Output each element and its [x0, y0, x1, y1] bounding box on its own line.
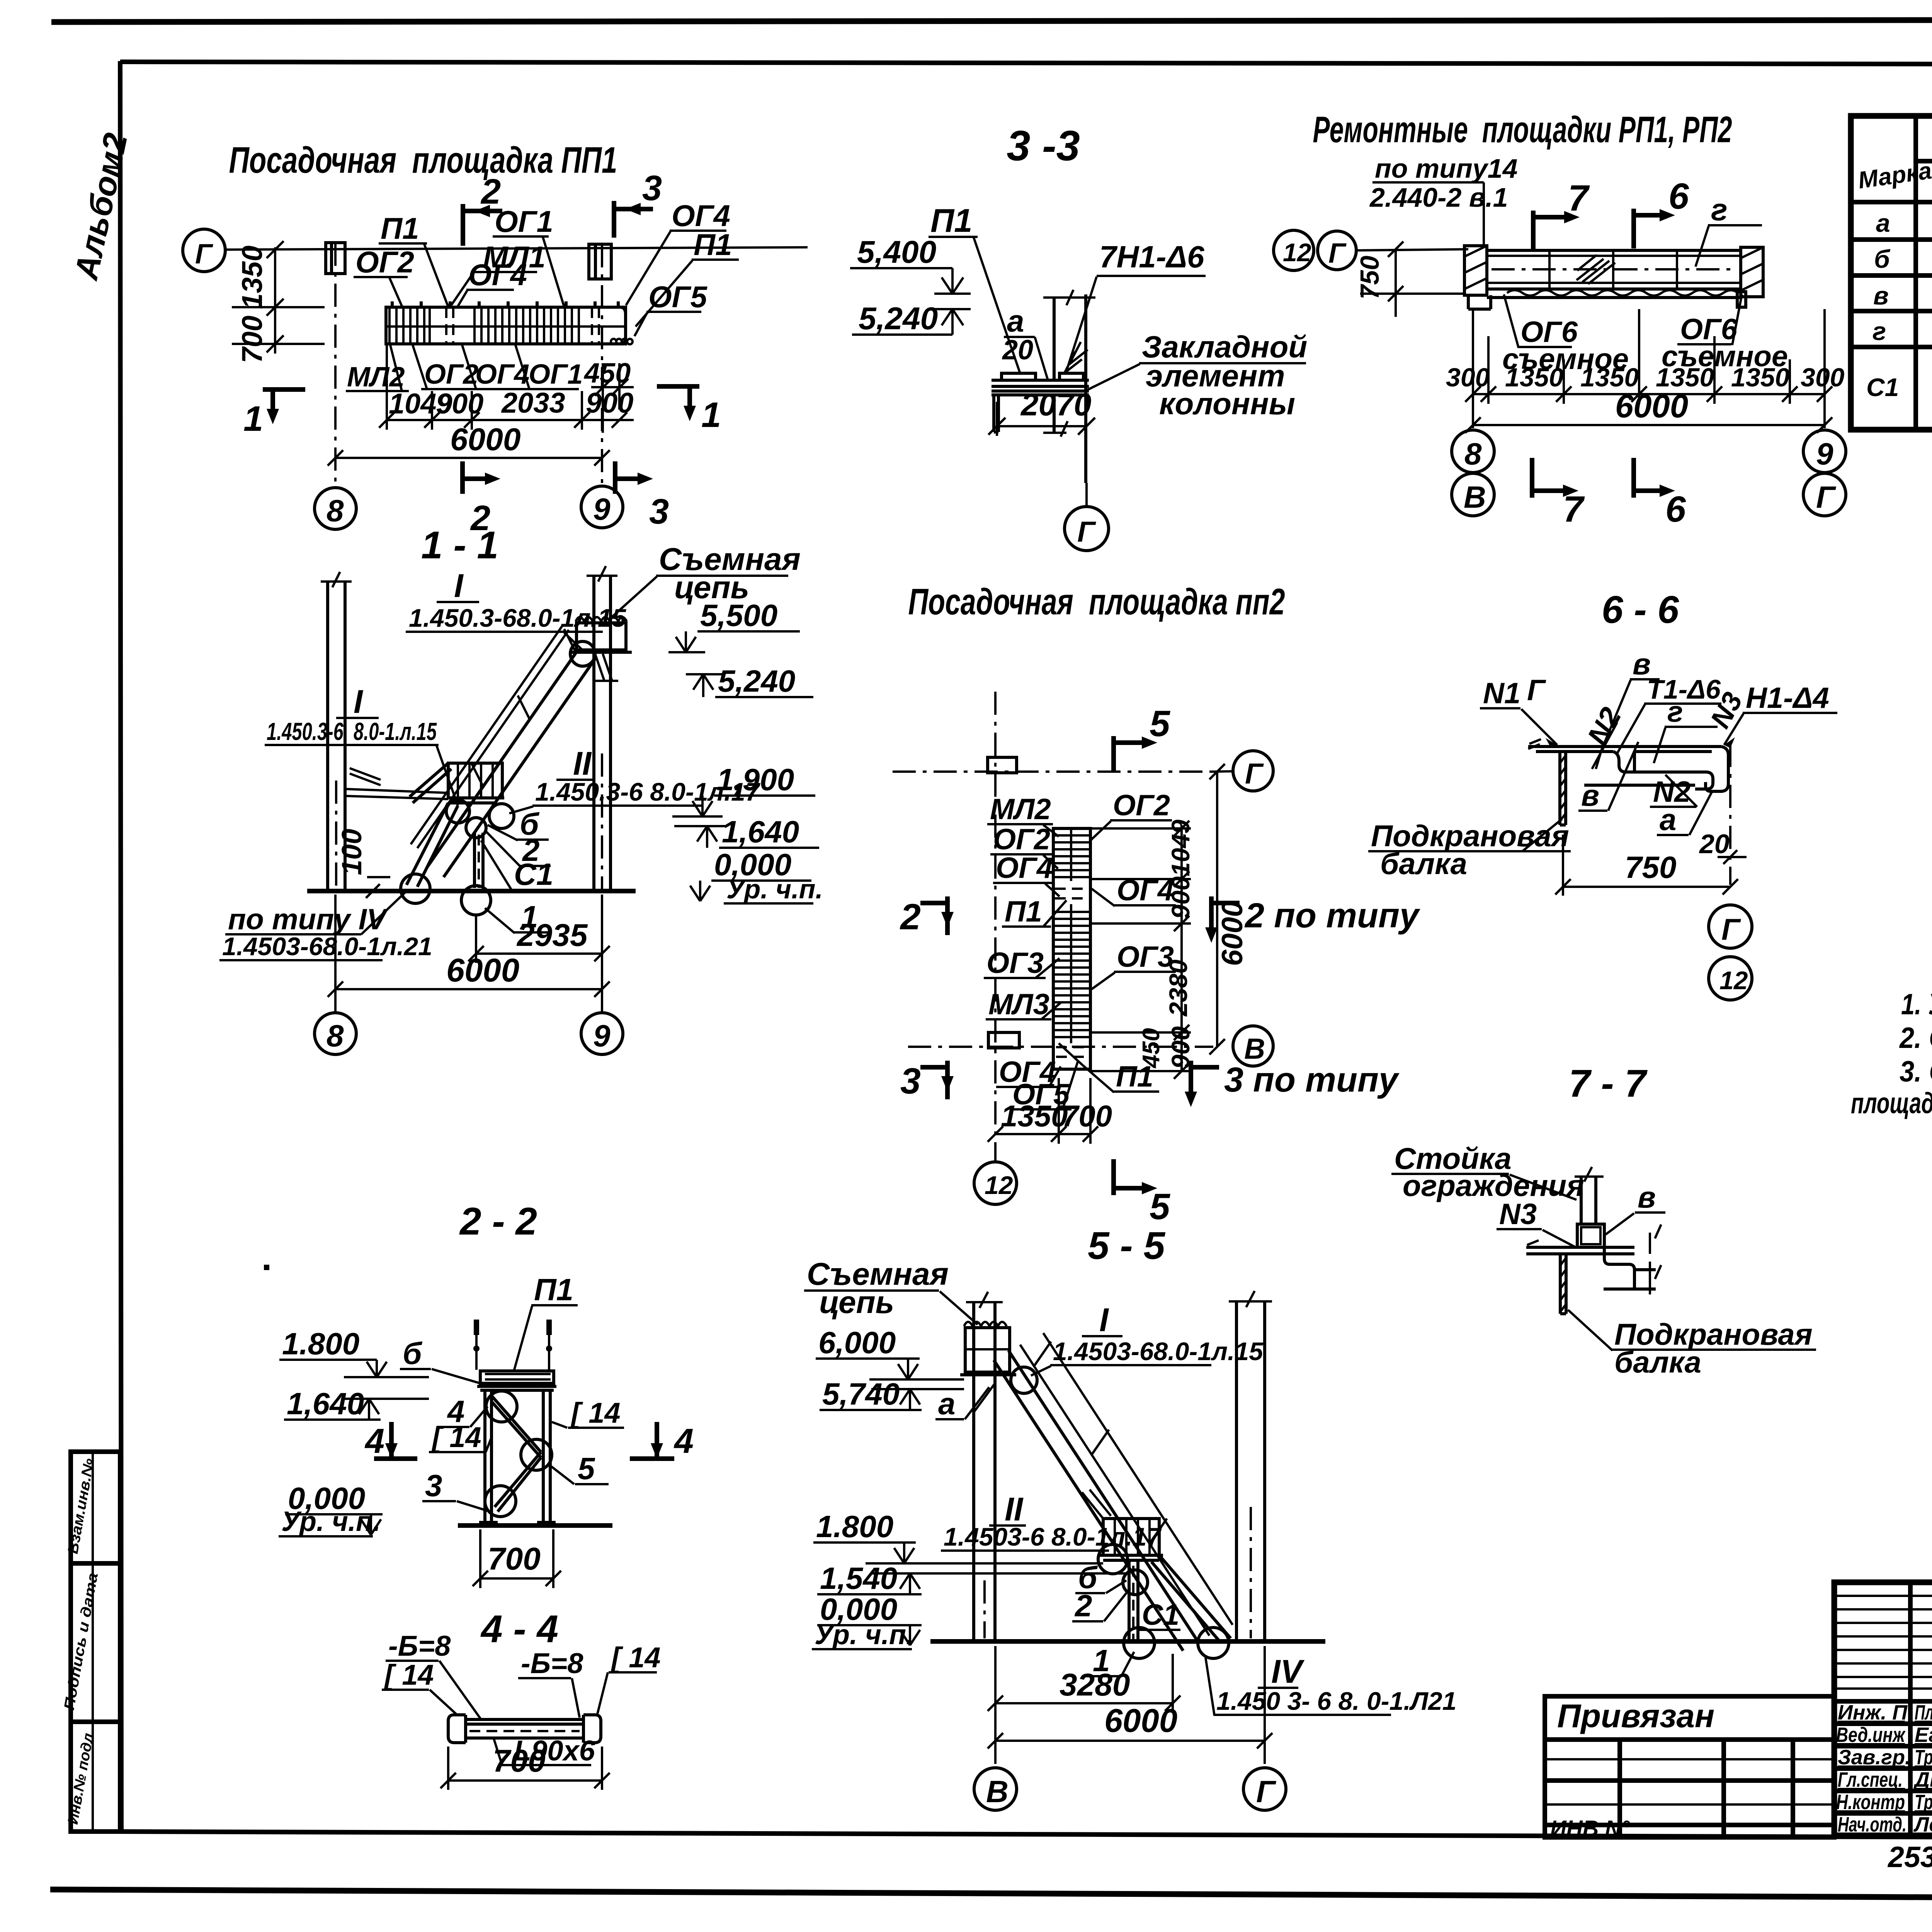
axis 8 vertical dash line	[334, 243, 337, 488]
svg-text:2380: 2380	[1164, 959, 1192, 1017]
stair plan rect	[1053, 828, 1090, 1069]
label 2 5-5	[1072, 1588, 1130, 1623]
label ТН1-Д6	[1065, 240, 1206, 373]
svg-text:6: 6	[1668, 176, 1689, 217]
lower flight to ground	[406, 803, 448, 885]
axis circle 12 bottom	[974, 1162, 1017, 1204]
label Подкрановая балка 6-6	[1368, 819, 1571, 881]
svg-text:ОГ2: ОГ2	[993, 823, 1050, 856]
label 1	[485, 900, 549, 934]
row line a	[1851, 237, 1932, 242]
svg-text:Посадочная площадка пп2: Посадочная площадка пп2	[908, 581, 1285, 622]
label П1	[929, 202, 1020, 373]
svg-text:П1: П1	[381, 211, 419, 245]
stair stringers 5-5	[1009, 1350, 1198, 1641]
axis circle 8 bottom	[1452, 430, 1494, 473]
dim 6000 vertical	[1209, 764, 1249, 1054]
vertical axis line 12	[994, 692, 997, 1162]
left ext: Привязан box	[1545, 1696, 1834, 1740]
svg-text:1.4503-6 8.0-1л.17: 1.4503-6 8.0-1л.17	[944, 1522, 1162, 1551]
label 2	[486, 832, 551, 867]
svg-text:г: г	[1711, 192, 1728, 227]
section mark 6 top	[1634, 176, 1689, 248]
label ОГ6 съемное left	[1502, 294, 1629, 376]
elevation 0,000	[690, 847, 811, 901]
label в top	[1596, 647, 1660, 769]
elevation 1.800 5-5	[813, 1509, 1103, 1563]
mid landing 5-5	[1082, 1490, 1163, 1560]
svg-text:1350: 1350	[1731, 363, 1789, 392]
section mark 2 по типу right	[1205, 896, 1420, 943]
axis circle В bottom	[1452, 473, 1494, 516]
svg-text:700: 700	[488, 1541, 541, 1577]
svg-text:3 по типу: 3 по типу	[1224, 1061, 1400, 1099]
outer bottom border line	[50, 1889, 1932, 1900]
label -б=8 right	[518, 1647, 583, 1718]
bracket below left	[994, 395, 998, 432]
channel body	[1634, 772, 1713, 789]
label N3 7-7	[1497, 1198, 1576, 1247]
label L90x6	[494, 1735, 595, 1767]
platform band RP	[1487, 250, 1746, 307]
axis line Г horizontal	[225, 247, 808, 250]
svg-text:20: 20	[1002, 335, 1033, 366]
svg-text:9: 9	[593, 1019, 611, 1053]
stair stringers upper flight	[427, 649, 578, 867]
svg-text:6000: 6000	[1615, 388, 1688, 425]
svg-text:Привязан: Привязан	[1557, 1698, 1714, 1735]
svg-text:6: 6	[1665, 489, 1686, 530]
right rounded end + chain	[612, 307, 626, 344]
elevation 1.800	[279, 1327, 429, 1377]
svg-text:I: I	[354, 684, 364, 720]
svg-text:С1: С1	[1142, 1599, 1179, 1631]
svg-text:ОГ1: ОГ1	[495, 204, 553, 238]
axis circle Г 5-5	[1243, 1768, 1286, 1810]
section mark 7 bottom	[1532, 458, 1585, 530]
label ОГ2 left	[354, 245, 414, 306]
svg-text:по типу14: по типу14	[1375, 153, 1518, 184]
row line г	[1851, 345, 1932, 349]
svg-text:7: 7	[1568, 178, 1590, 219]
signature rows text	[1836, 1701, 1932, 1836]
rung hatching left segment	[389, 309, 430, 342]
svg-text:площадок, ограждений смотри: площадок, ограждений смотри лист 18	[1851, 1087, 1932, 1120]
svg-text:3: 3	[642, 168, 662, 208]
right column 5-5	[1235, 1301, 1238, 1641]
svg-text:6000: 6000	[1104, 1702, 1177, 1739]
right label ОГ4	[1092, 874, 1176, 907]
ground line 2-2	[458, 1523, 612, 1528]
title block outer rect	[1834, 1582, 1932, 1835]
signature row lines	[1834, 1699, 1932, 1704]
svg-text:300: 300	[1801, 363, 1845, 392]
web plate hatched 7-7	[1560, 1254, 1566, 1314]
right column 1-1	[592, 576, 595, 891]
svg-text:2.440-2 в.1: 2.440-2 в.1	[1369, 182, 1508, 213]
svg-text:8: 8	[327, 1019, 344, 1053]
label I ref 5-5	[1011, 1302, 1264, 1393]
axis line down to Г	[1085, 483, 1088, 506]
svg-text:20: 20	[1699, 829, 1730, 859]
label ОГ4 right top	[626, 199, 730, 305]
section mark 7 top	[1533, 178, 1590, 250]
section mark 2 top	[463, 172, 502, 246]
label МЛ1	[450, 240, 546, 307]
label Ур.ч.п.	[724, 874, 823, 904]
dim 2070	[988, 387, 1095, 436]
arrow line lower left	[1360, 293, 1464, 295]
underlines for signature rows	[1836, 1721, 1932, 1834]
elevation 5,240	[686, 664, 813, 698]
small dot	[264, 1265, 269, 1270]
top deck plate	[1528, 747, 1721, 752]
axis circle В PP2	[1233, 1026, 1273, 1066]
section mark 2 bottom	[463, 461, 500, 538]
svg-text:8: 8	[327, 493, 344, 528]
svg-text:Г: Г	[1077, 515, 1096, 548]
svg-text:[ 14: [ 14	[570, 1397, 621, 1429]
horizontal axis line В	[908, 1046, 1213, 1048]
axis circle Г left	[1318, 231, 1356, 270]
svg-text:в: в	[1873, 281, 1889, 310]
ground line 5-5	[930, 1639, 1325, 1644]
ladder П1 dashed position	[445, 307, 447, 344]
dimension 6000	[328, 422, 610, 466]
weld flag а 5-5	[935, 1383, 995, 1421]
left label МЛ3	[986, 988, 1061, 1021]
svg-text:2: 2	[1074, 1588, 1092, 1623]
hatch patch	[1577, 255, 1615, 284]
axis circle 12 6-6	[1709, 957, 1752, 1000]
axis lines down	[1472, 309, 1474, 428]
label 5	[549, 1451, 609, 1486]
svg-text:5: 5	[1150, 703, 1170, 744]
top landing 5-5	[965, 1328, 1010, 1372]
dim 100	[337, 829, 390, 898]
inner frame left line	[120, 61, 121, 1832]
svg-text:1350: 1350	[1505, 363, 1563, 392]
svg-text:-Б=8: -Б=8	[388, 1630, 451, 1662]
svg-text:Г: Г	[1527, 674, 1546, 707]
dim 750 6-6	[1555, 835, 1738, 896]
svg-text:1: 1	[701, 395, 721, 435]
svg-text:3: 3	[425, 1468, 442, 1503]
node circles bottom	[466, 818, 486, 838]
elevation 1,900	[672, 762, 815, 816]
right label П1 bottom	[1082, 1060, 1159, 1093]
chain curls at top	[576, 617, 627, 621]
label ОГ5 right	[634, 280, 708, 336]
label 1 5-5	[1086, 1643, 1134, 1678]
axis line from Г	[1356, 249, 1468, 250]
svg-text:100: 100	[337, 829, 367, 875]
svg-text:5,240: 5,240	[718, 664, 795, 698]
right label ОГ3	[1092, 940, 1176, 989]
svg-text:а: а	[1876, 209, 1890, 237]
svg-text:900: 900	[436, 388, 483, 420]
svg-text:1.4503-68.0-1л.21: 1.4503-68.0-1л.21	[222, 932, 432, 961]
label Стойка ограждения	[1391, 1141, 1584, 1202]
left labels МЛ2	[987, 793, 1059, 837]
right axis dash line	[1729, 744, 1731, 885]
svg-text:МЛ3: МЛ3	[988, 988, 1049, 1021]
label П1 2-2	[514, 1272, 578, 1371]
label Т1-Д6	[1617, 674, 1721, 753]
svg-text:3: 3	[649, 492, 669, 531]
svg-text:1.450.3-6 8.0-1.л.15: 1.450.3-6 8.0-1.л.15	[267, 718, 437, 745]
svg-text:5: 5	[578, 1451, 595, 1486]
svg-text:5,240: 5,240	[859, 301, 938, 336]
svg-text:700: 700	[236, 316, 268, 363]
svg-text:1 - 1: 1 - 1	[421, 524, 498, 567]
svg-text:б: б	[403, 1336, 423, 1371]
elevation 5,740	[820, 1377, 964, 1411]
label Ур.ч.п. 5-5	[812, 1619, 914, 1650]
column lines	[1053, 298, 1056, 381]
dimension chain 1049 900 2033 900	[379, 345, 634, 430]
chain ovals along bottom	[1507, 290, 1738, 296]
svg-text:1350: 1350	[1001, 1099, 1068, 1133]
lower ladder rungs МЛ3	[1055, 912, 1089, 1037]
svg-text:900: 900	[1166, 876, 1195, 919]
label Съемная цепь 1-1	[611, 542, 801, 618]
elevation 1,640	[284, 1386, 429, 1421]
mid landing 1-1	[410, 763, 504, 803]
ground line 1-1	[307, 889, 636, 893]
svg-text:6,000: 6,000	[818, 1325, 896, 1360]
svg-text:700: 700	[1062, 1099, 1112, 1133]
svg-text:ОГ2: ОГ2	[355, 245, 414, 279]
support post below landing	[1129, 1562, 1138, 1639]
svg-text:6 - 6: 6 - 6	[1602, 588, 1679, 631]
right C channel	[583, 1715, 601, 1743]
left label ОГ4 bottom	[996, 1056, 1061, 1088]
left column hatched	[1464, 246, 1487, 295]
axis circle 8 (1-1)	[315, 1013, 356, 1054]
svg-text:1,640: 1,640	[722, 815, 799, 849]
label г 6-6	[1654, 696, 1718, 763]
dim 700 2-2	[473, 1529, 561, 1588]
left column 5-5	[972, 1302, 975, 1641]
svg-text:3. Спецификацию к схеме ра: 3. Спецификацию к схеме расположения лес…	[1900, 1055, 1932, 1088]
label Закладной элемент колонны	[1087, 330, 1307, 421]
section mark 4 right	[630, 1422, 694, 1461]
label по типу 14 / 2.440-2 в.1	[1369, 153, 1518, 247]
svg-text:В: В	[1464, 480, 1486, 514]
svg-text:ОГ4: ОГ4	[996, 852, 1053, 884]
dim 750 vertical	[1355, 241, 1403, 317]
column break mark bottom	[1043, 421, 1068, 437]
label ОГ6 съемное right	[1662, 294, 1788, 373]
svg-text:Г: Г	[1721, 912, 1741, 946]
node circles 5-5 lower	[1123, 1570, 1148, 1595]
left label ОГ3	[984, 947, 1060, 980]
svg-text:Посадочная площадка ПП1: Посадочная площадка ПП1	[229, 139, 617, 181]
label С1	[481, 840, 553, 891]
axis circle 9 bottom	[1803, 430, 1846, 473]
label I left with ref	[265, 684, 469, 823]
left label П1	[1002, 895, 1066, 928]
svg-text:IV: IV	[1271, 1653, 1305, 1690]
bracket below left column	[1468, 295, 1491, 309]
svg-text:1,640: 1,640	[287, 1386, 364, 1421]
svg-text:3280: 3280	[1060, 1667, 1130, 1702]
label N3 Н1-Д4	[1704, 682, 1837, 748]
row line в	[1851, 309, 1932, 313]
elevation 5,400	[850, 235, 971, 294]
svg-text:ОГ4: ОГ4	[468, 258, 527, 292]
svg-text:25388 - 02: 25388 - 02	[1887, 1841, 1932, 1874]
columns 2-2	[485, 1390, 550, 1522]
svg-text:Г: Г	[1245, 757, 1264, 790]
label по типу IV ref	[219, 893, 432, 961]
section mark 6 bottom	[1634, 458, 1686, 530]
bottom dims 1350 700	[988, 1078, 1112, 1144]
label -б=8 left	[386, 1630, 481, 1719]
axis circle 9 (1-1)	[581, 1013, 623, 1054]
axis circle 12 left	[1274, 230, 1314, 270]
svg-text:б: б	[1874, 245, 1891, 273]
svg-text:Ремонтные площадки РП1, РП2: Ремонтные площадки РП1, РП2	[1313, 109, 1732, 150]
lower flight 5-5	[1159, 1555, 1231, 1638]
section mark 2 left	[900, 896, 954, 937]
svg-text:Ур. ч.п.: Ур. ч.п.	[726, 874, 823, 904]
elevation 0,000 5-5	[817, 1592, 922, 1645]
left column 1-1	[326, 582, 329, 891]
elevation 1,640	[674, 815, 819, 849]
section mark 5 bottom	[1114, 1159, 1170, 1227]
svg-text:N1: N1	[1483, 677, 1520, 710]
svg-text:7 - 7: 7 - 7	[1569, 1062, 1648, 1105]
label а lower	[1657, 792, 1712, 837]
post 7-7	[1581, 1177, 1596, 1224]
bottom zone dashes	[1056, 1047, 1089, 1057]
header split line under Сечение / Опорные усилия	[1916, 159, 1932, 163]
label б 5-5	[1075, 1560, 1126, 1595]
platform band PP1	[386, 301, 633, 344]
column line Марка	[1913, 116, 1918, 430]
inner frame top line	[120, 62, 1932, 65]
label С1 5-5	[1139, 1599, 1180, 1631]
label С14 right	[552, 1397, 624, 1429]
svg-text:в: в	[1581, 778, 1599, 812]
svg-text:6000: 6000	[1216, 901, 1249, 966]
label II ref 5-5	[941, 1491, 1162, 1574]
svg-text:7Н1-Δ6: 7Н1-Δ6	[1099, 240, 1204, 274]
elevation 5,240	[852, 301, 971, 336]
svg-text:9: 9	[1816, 437, 1833, 471]
dim 2935	[468, 915, 610, 963]
label б	[488, 807, 549, 841]
svg-text:N3: N3	[1499, 1198, 1537, 1231]
label в lower	[1578, 742, 1638, 812]
right label ОГ2	[1090, 789, 1172, 840]
left C channel	[448, 1715, 466, 1743]
top landing box	[577, 623, 626, 650]
svg-text:2 по типу: 2 по типу	[1244, 896, 1420, 935]
dimension chain 300 1350x4 300	[1446, 309, 1845, 404]
column at axis 9	[589, 244, 611, 279]
svg-text:750: 750	[1625, 850, 1676, 884]
right C-channel end	[1706, 747, 1728, 791]
left label ОГ2	[990, 823, 1058, 869]
svg-text:2 - 2: 2 - 2	[459, 1200, 537, 1243]
section mark 1 right	[657, 386, 721, 435]
svg-text:5: 5	[1150, 1186, 1170, 1227]
dim 6000 1-1	[328, 895, 610, 1014]
svg-text:900: 900	[1166, 1026, 1195, 1069]
svg-text:ИНВ N°: ИНВ N°	[1550, 1816, 1630, 1841]
horizontal plate 7-7	[1526, 1247, 1634, 1254]
svg-text:1.450.3-68.0-1л.15: 1.450.3-68.0-1л.15	[409, 604, 626, 632]
svg-text:балка: балка	[1380, 847, 1467, 881]
svg-text:С1: С1	[1866, 373, 1899, 401]
svg-text:5 - 5: 5 - 5	[1088, 1224, 1165, 1267]
section mark 3 left	[900, 1061, 954, 1102]
label П1 top	[379, 211, 448, 307]
section mark 3 по типу right	[1185, 1061, 1400, 1107]
svg-text:балка: балка	[1614, 1345, 1701, 1379]
label N2 rotated	[1581, 702, 1628, 769]
svg-text:Г: Г	[195, 239, 213, 270]
dim 3280	[988, 1654, 1180, 1713]
svg-text:12: 12	[1283, 238, 1311, 267]
svg-text:ОГ3: ОГ3	[986, 947, 1044, 980]
svg-text:2070: 2070	[1020, 387, 1091, 422]
svg-text:2033: 2033	[501, 387, 565, 419]
axis 9 vertical dash line	[601, 244, 603, 488]
left label ОГ4	[993, 852, 1060, 896]
svg-text:1350: 1350	[236, 245, 268, 309]
svg-text:700: 700	[493, 1743, 546, 1779]
svg-text:II: II	[573, 745, 592, 782]
svg-text:МЛ2: МЛ2	[990, 793, 1051, 826]
section mark 3 bottom	[615, 461, 669, 531]
dimension 6000 RP	[1465, 388, 1832, 433]
svg-text:2935: 2935	[516, 918, 588, 953]
svg-text:П1: П1	[930, 202, 972, 239]
label С14 left 4-4	[382, 1659, 458, 1716]
svg-text:2. Сварку выполнять по ГОС: 2. Сварку выполнять по ГОСТ 5264 - 80.	[1899, 1022, 1932, 1054]
axis circle Г 3-3	[1065, 507, 1109, 551]
Z bracket right	[1604, 1247, 1656, 1289]
svg-text:[ 14: [ 14	[431, 1421, 481, 1453]
svg-text:3 -3: 3 -3	[1007, 122, 1080, 170]
label г	[1696, 192, 1762, 267]
dim 6000 5-5	[988, 1646, 1272, 1764]
svg-text:1.800: 1.800	[282, 1327, 359, 1361]
svg-text:-Б=8: -Б=8	[521, 1647, 583, 1679]
label Подкрановая балка 7-7	[1568, 1310, 1816, 1379]
svg-text:1. Узлы, кроме оговоренных,: 1. Узлы, кроме оговоренных, разработаны …	[1901, 988, 1932, 1021]
inner frame bottom line	[120, 1832, 1932, 1839]
section mark 4 left	[364, 1422, 417, 1461]
upper ladder rungs МЛ2	[1055, 835, 1089, 877]
svg-text:Г: Г	[1256, 1774, 1277, 1809]
svg-text:Т1-Δ6: Т1-Δ6	[1647, 674, 1721, 704]
svg-text:I: I	[454, 568, 464, 604]
svg-text:6000: 6000	[446, 952, 519, 989]
column rect on В axis	[988, 1032, 1019, 1048]
svg-text:4: 4	[364, 1422, 384, 1461]
node circles 2-2	[486, 1391, 517, 1422]
horizontal axis line Г	[893, 770, 1213, 773]
chain curls 5-5	[964, 1322, 1007, 1326]
elevation 5,500	[668, 598, 800, 652]
left label ОГ5 bottom	[1010, 1061, 1078, 1111]
svg-text:Г: Г	[1328, 238, 1347, 269]
